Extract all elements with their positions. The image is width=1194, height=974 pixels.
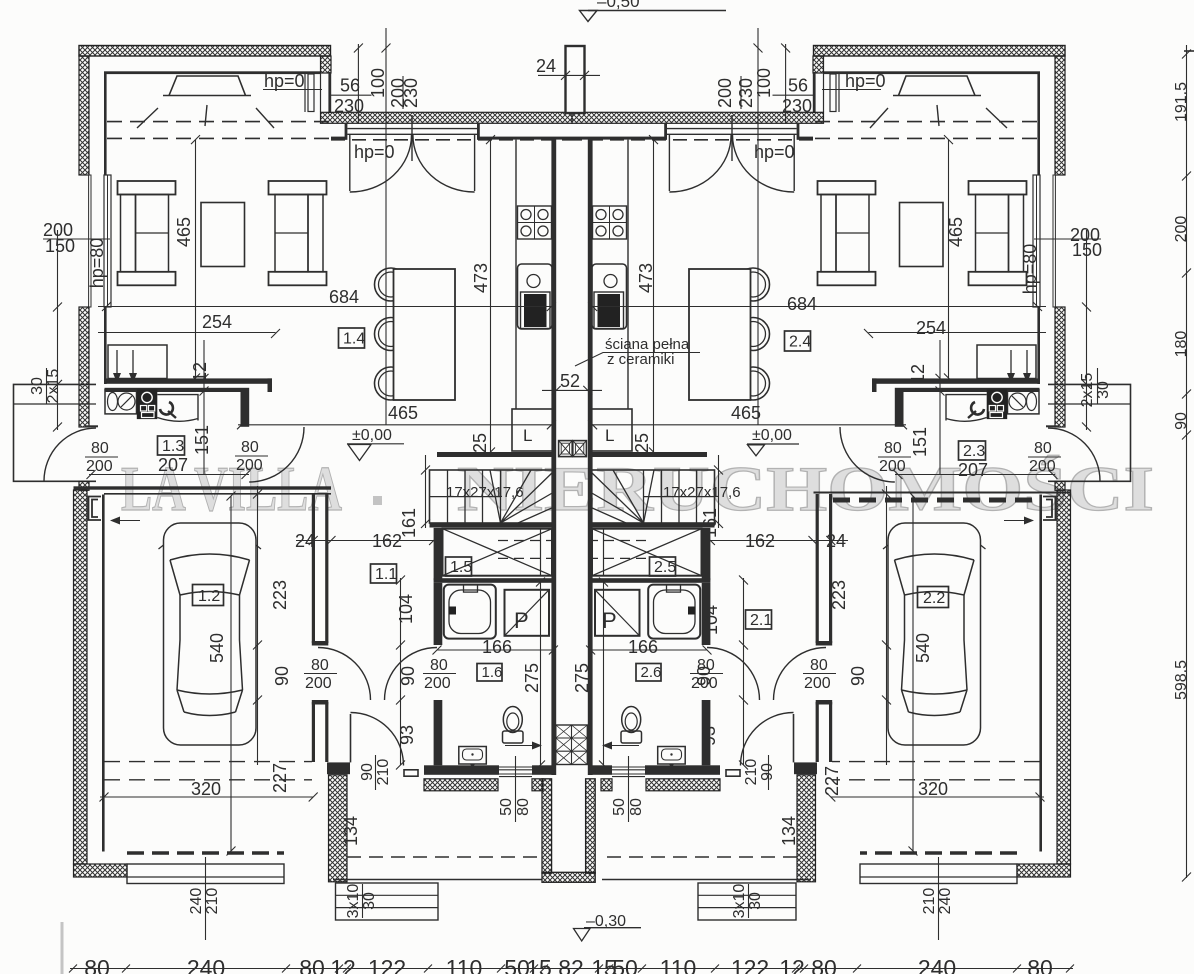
1.1 / 2.1 labels	[371, 564, 773, 629]
wall: left garage top wall	[74, 486, 332, 489]
hall back door swing arc	[351, 713, 404, 766]
dim chain 104/90/93 vertical	[400, 578, 402, 765]
level marker ±0,00 left	[347, 443, 404, 445]
svg-text:17x27x17,6: 17x27x17,6	[446, 484, 524, 501]
svg-text:15: 15	[526, 955, 552, 974]
svg-text:465: 465	[946, 217, 966, 247]
svg-text:80: 80	[810, 657, 828, 674]
svg-text:240: 240	[187, 955, 225, 974]
bathtub	[444, 585, 496, 639]
svg-text:210: 210	[921, 888, 938, 915]
svg-text:200: 200	[424, 675, 451, 692]
dim line at entrance	[357, 44, 359, 124]
svg-text:80: 80	[430, 657, 448, 674]
svg-text:210: 210	[204, 888, 221, 915]
dim 52 center	[542, 389, 572, 391]
wall: right garage top wall (solid+dashed)	[814, 492, 1071, 494]
wash basin	[459, 747, 487, 765]
wall: bathroom bottom wall right part	[532, 765, 556, 775]
svg-text:540: 540	[913, 633, 933, 663]
side door leaf cap	[85, 425, 98, 427]
back porch floor edge	[333, 879, 542, 881]
svg-text:200: 200	[879, 458, 906, 475]
wall: bathroom bottom wall left part	[424, 765, 499, 775]
roof overhang dashed lines in living room	[107, 121, 330, 123]
bathroom door swing arc	[385, 648, 438, 701]
svg-text:1.4: 1.4	[343, 331, 365, 348]
svg-text:56: 56	[788, 76, 808, 96]
svg-text:223: 223	[270, 580, 290, 610]
svg-text:hp=80: hp=80	[1020, 244, 1040, 295]
svg-text:3x10: 3x10	[345, 884, 362, 919]
svg-text:12: 12	[190, 362, 210, 382]
side porch outline with 2 steps	[14, 384, 97, 481]
svg-text:hp=0: hp=0	[845, 71, 886, 91]
dining chairs	[375, 268, 408, 301]
svg-text:2.4: 2.4	[789, 334, 811, 351]
svg-text:104: 104	[701, 605, 721, 635]
kitchen peninsula wall 12	[105, 378, 273, 383]
svg-text:151: 151	[192, 425, 212, 455]
svg-text:240: 240	[188, 888, 205, 915]
divider 200/230 rotated	[402, 76, 404, 109]
entrance door right swing arc	[413, 135, 475, 192]
svg-text:90: 90	[398, 666, 418, 686]
svg-text:hp=0: hp=0	[264, 71, 305, 91]
svg-text:1.2: 1.2	[198, 588, 220, 605]
svg-text:684: 684	[787, 294, 817, 314]
wall: front wall hatch band of entry section	[321, 112, 573, 123]
wall: front wall body edges at entry	[331, 137, 347, 140]
1.5 / 2.5 labels	[446, 557, 677, 576]
svg-text:80: 80	[241, 439, 259, 456]
svg-text:162: 162	[745, 531, 775, 551]
svg-text:17x27x17,6: 17x27x17,6	[663, 484, 741, 501]
svg-text:161: 161	[700, 508, 720, 538]
svg-text:191.5: 191.5	[1173, 82, 1190, 122]
chimney 24	[566, 46, 585, 113]
sofa 2 (facing)	[269, 181, 327, 195]
svg-text:104: 104	[396, 594, 416, 624]
svg-text:210: 210	[743, 759, 760, 786]
svg-text:200: 200	[1173, 216, 1190, 243]
2x15/30 porch rotated	[29, 369, 1112, 408]
svg-text:122: 122	[368, 955, 406, 974]
bottom dimension chain	[69, 965, 1074, 973]
svg-text:150: 150	[1072, 240, 1102, 260]
dim 275 bathroom vertical	[540, 582, 542, 765]
skylight trapezoid	[163, 76, 251, 96]
svg-text:1.1: 1.1	[375, 566, 397, 583]
svg-text:166: 166	[482, 637, 512, 657]
svg-text:30: 30	[747, 892, 764, 910]
washing machine P	[505, 590, 550, 636]
3x10/30 rotated	[345, 884, 764, 919]
dim 465 lower / level line	[238, 424, 551, 426]
dim 161 stairs vertical	[425, 455, 427, 528]
back step box right 3x10/30	[698, 883, 796, 920]
svg-text:24: 24	[536, 56, 556, 76]
wall: party wall (ściana pełna)	[551, 139, 556, 775]
window left wall 200/150 glazing	[89, 175, 91, 307]
svg-text:hp=0: hp=0	[354, 142, 395, 162]
svg-text:L: L	[605, 426, 614, 445]
wall: left inner face upper	[104, 74, 107, 175]
entrance door left swing arc	[350, 135, 412, 192]
wall: left wall of storage/bath block	[434, 528, 443, 580]
svg-text:12: 12	[908, 364, 928, 384]
stairs outer box	[430, 470, 555, 523]
wall: thick wall above stairs	[437, 452, 556, 457]
wall: top wall inner face line	[104, 71, 321, 74]
window 200/150 fraction	[43, 238, 110, 240]
svg-text:80: 80	[299, 955, 325, 974]
svg-text:80: 80	[697, 657, 715, 674]
bottom chain labels	[84, 955, 1053, 974]
wall: column between hall and back porch hatch	[329, 775, 348, 882]
kitchen counter edge line	[515, 140, 517, 409]
kitchenette sink cabinet	[105, 390, 137, 414]
svg-text:90: 90	[272, 666, 292, 686]
svg-text:2.2: 2.2	[923, 590, 945, 607]
garage door dashed head	[127, 851, 284, 854]
svg-text:134: 134	[341, 816, 361, 846]
level marker -0,50 top	[588, 10, 726, 12]
skylight rays	[137, 105, 274, 128]
wall: floor edge under stairs	[430, 524, 557, 528]
svg-text:230: 230	[334, 96, 364, 116]
svg-text:56: 56	[340, 76, 360, 96]
svg-text:122: 122	[731, 955, 769, 974]
svg-text:166: 166	[628, 637, 658, 657]
garage left wall window bracket	[89, 497, 102, 521]
svg-text:93: 93	[699, 726, 719, 746]
wall: left hatch stub below side door	[79, 481, 89, 490]
fraction 56/230	[331, 94, 372, 96]
svg-text:93: 93	[397, 725, 417, 745]
svg-text:80: 80	[311, 657, 329, 674]
svg-text:80: 80	[84, 955, 110, 974]
svg-text:275: 275	[572, 663, 592, 693]
hp=0 underline	[263, 89, 322, 91]
svg-text:90: 90	[1173, 412, 1190, 430]
svg-text:465: 465	[731, 403, 761, 423]
sciana pelna leader line	[575, 353, 700, 367]
svg-text:150: 150	[45, 236, 75, 256]
stair treads	[430, 470, 501, 523]
svg-text:±0,00: ±0,00	[352, 427, 392, 444]
svg-text:–0,50: –0,50	[597, 0, 640, 11]
svg-text:227: 227	[822, 766, 842, 796]
dim 320 garage	[100, 796, 313, 798]
svg-text:P: P	[514, 608, 529, 633]
wall: bathroom left wall upper	[434, 583, 443, 645]
svg-text:684: 684	[329, 287, 359, 307]
dim 207 entry	[89, 474, 249, 476]
svg-text:52: 52	[560, 371, 580, 391]
svg-text:180: 180	[1173, 331, 1190, 358]
svg-text:90: 90	[848, 666, 868, 686]
dim 540 garage vertical	[230, 496, 232, 851]
svg-text:240: 240	[918, 955, 956, 974]
wall: garage left inner face	[102, 495, 105, 852]
svg-text:110: 110	[446, 955, 483, 974]
dim 254 horizontal	[98, 332, 276, 334]
svg-text:207: 207	[958, 460, 988, 480]
divider 2x15/30 porch	[46, 368, 48, 404]
dim 166 bathroom	[437, 649, 553, 651]
svg-text:2.1: 2.1	[750, 612, 772, 629]
sofa 1 (left wall)	[118, 181, 176, 195]
svg-text:230: 230	[782, 96, 812, 116]
watermark LA VILLA - NIERUCHOMOSCI	[121, 453, 1154, 524]
gas meter grid 2x3	[556, 725, 588, 765]
hall back door threshold	[404, 770, 418, 776]
side door swing arc	[44, 428, 96, 481]
right unit: mirrored copy	[572, 28, 1131, 940]
svg-text:210: 210	[375, 759, 392, 786]
svg-text:hp=0: hp=0	[754, 142, 795, 162]
entry closet with arrows	[108, 345, 167, 379]
wall: garage left exterior hatch	[74, 490, 88, 864]
door jamb left of entrance	[345, 123, 348, 140]
dim 24/162 horizontal	[296, 540, 434, 542]
svg-text:227: 227	[270, 763, 290, 793]
svg-text:82: 82	[558, 955, 584, 974]
storage 1.5 crossed box	[443, 529, 553, 576]
svg-text:230: 230	[736, 78, 756, 108]
svg-text:80: 80	[1027, 955, 1053, 974]
svg-text:240: 240	[937, 888, 954, 915]
240/210 garage door rotated	[188, 888, 954, 915]
kitchen stove 4 burners	[518, 206, 552, 239]
wall: garage right wall upper	[313, 494, 326, 643]
stair winder diagonals	[490, 470, 554, 523]
50/80 rotated pairs	[498, 798, 645, 816]
back step box left 3x10/30	[336, 883, 439, 920]
svg-text:254: 254	[202, 312, 232, 332]
entrance double door panels	[347, 129, 477, 135]
svg-text:200: 200	[305, 675, 332, 692]
hall back door leaf	[350, 714, 352, 762]
80/200 porch doors	[86, 439, 1056, 475]
central utility shaft walls	[542, 779, 552, 874]
shaft arrow	[505, 745, 540, 747]
right edge dimension chain	[1182, 45, 1191, 882]
wall: garage bottom-left hatch	[74, 864, 128, 877]
svg-text:30: 30	[1095, 381, 1112, 399]
svg-text:24: 24	[295, 531, 315, 551]
back porch dashed line	[347, 856, 542, 858]
1.4 / 2.4 room labels	[339, 328, 812, 351]
entrance door right leaf	[474, 134, 476, 191]
svg-text:80: 80	[515, 798, 532, 816]
svg-text:80: 80	[884, 440, 902, 457]
left outer chain	[57, 230, 59, 430]
wall: between storage and bathroom	[434, 578, 556, 583]
svg-text:465: 465	[388, 403, 418, 423]
garage window arrow	[112, 520, 140, 522]
svg-text:2x15: 2x15	[1079, 373, 1096, 408]
dimension lines	[43, 28, 572, 940]
bathroom window 50/80 glazing	[499, 767, 532, 777]
1.2 / 2.2 labels	[193, 585, 949, 608]
svg-text:50: 50	[612, 955, 638, 974]
scan artifact left edge	[61, 922, 64, 974]
wall: bathroom left wall lower	[434, 700, 443, 765]
wall: garage right wall lower	[313, 702, 326, 762]
svg-text:100: 100	[754, 68, 774, 98]
kitchen 12 dim line	[203, 340, 205, 475]
divider 240/210	[205, 857, 207, 940]
level marker ±0,00 right	[747, 443, 799, 445]
wall: hall bottom wall stub	[327, 762, 350, 774]
svg-text:3x10: 3x10	[731, 884, 748, 919]
svg-text:200: 200	[691, 675, 718, 692]
svg-text:473: 473	[471, 263, 491, 293]
garage car	[159, 523, 262, 745]
wall: left inner face mid	[104, 307, 107, 384]
svg-text:110: 110	[660, 955, 697, 974]
divider 90/210	[375, 755, 377, 790]
svg-text:z ceramiki: z ceramiki	[607, 351, 675, 368]
svg-text:200: 200	[804, 675, 831, 692]
kitchenette stove dark	[137, 390, 158, 420]
dining table	[394, 269, 456, 400]
svg-text:80: 80	[628, 798, 645, 816]
svg-text:2.3: 2.3	[963, 443, 985, 460]
svg-text:598.5: 598.5	[1173, 660, 1190, 700]
level marker -0,30 bottom	[584, 927, 641, 929]
svg-text:24: 24	[826, 531, 846, 551]
wall: left exterior hatch band mid	[79, 307, 89, 427]
svg-text:320: 320	[918, 779, 948, 799]
wall: east step wall of living section with window 56	[305, 72, 321, 112]
dim 473 vertical	[490, 140, 492, 452]
svg-text:L: L	[523, 426, 532, 445]
svg-text:254: 254	[916, 318, 946, 338]
svg-text:151: 151	[910, 427, 930, 457]
svg-text:30: 30	[29, 377, 46, 395]
skylight centre dim line	[385, 28, 387, 425]
svg-text:200: 200	[236, 457, 263, 474]
svg-text:12: 12	[779, 955, 805, 974]
dim 24 chimney	[538, 71, 600, 80]
wall: top exterior wall hatch band (living room)	[79, 46, 331, 57]
1.6 / 2.6 labels	[477, 664, 661, 682]
kitchenette counter with faucet	[157, 395, 198, 422]
svg-text:50: 50	[498, 798, 515, 816]
coffee table	[201, 203, 245, 267]
90/210 rotated pairs	[359, 759, 776, 786]
svg-text:2x15: 2x15	[45, 369, 62, 404]
svg-text:1.5: 1.5	[450, 559, 472, 576]
1.3 / 2.3 labels	[158, 436, 986, 460]
svg-text:207: 207	[158, 455, 188, 475]
dim 465 living vertical	[195, 140, 197, 378]
wall: corner hatch column	[321, 56, 332, 73]
dim 684 horizontal	[98, 306, 551, 308]
top right corner tick	[1184, 50, 1194, 52]
svg-text:P: P	[602, 608, 617, 633]
svg-text:–0,30: –0,30	[586, 913, 626, 930]
entrance door mullion	[411, 115, 413, 161]
divider 50/80	[515, 756, 517, 822]
svg-text:80: 80	[1034, 440, 1052, 457]
80/200 garage and bath doors	[305, 657, 831, 692]
toilet	[503, 731, 524, 743]
kitchen sink unit	[518, 264, 553, 329]
electric meter boxes at entry	[559, 441, 587, 457]
svg-text:223: 223	[829, 580, 849, 610]
garage interior dashed lines	[104, 762, 312, 780]
svg-text:30: 30	[361, 892, 378, 910]
svg-text:2.5: 2.5	[654, 559, 676, 576]
hall door swing arc at kitchen	[249, 427, 304, 482]
svg-text:2.6: 2.6	[641, 664, 662, 681]
svg-text:200: 200	[86, 458, 113, 475]
svg-text:200: 200	[1029, 458, 1056, 475]
back porch hatch strip under bathroom wall	[424, 779, 498, 791]
dashed line across entry (hp boundary)	[331, 139, 572, 141]
svg-text:320: 320	[191, 779, 221, 799]
svg-text:465: 465	[174, 217, 194, 247]
svg-text:90: 90	[759, 763, 776, 781]
svg-text:540: 540	[207, 633, 227, 663]
svg-text:162: 162	[372, 531, 402, 551]
svg-text:100: 100	[368, 68, 388, 98]
wall: left exterior hatch band upper	[79, 56, 89, 175]
svg-text:230: 230	[401, 78, 421, 108]
svg-text:90: 90	[359, 763, 376, 781]
entrance door left leaf	[349, 134, 351, 191]
svg-text:12: 12	[330, 955, 356, 974]
svg-text:50: 50	[611, 798, 628, 816]
svg-text:473: 473	[636, 263, 656, 293]
svg-text:134: 134	[779, 816, 799, 846]
svg-text:hp=80: hp=80	[87, 238, 107, 289]
svg-text:275: 275	[522, 663, 542, 693]
garage apron step	[127, 864, 284, 884]
svg-text:1.6: 1.6	[482, 664, 503, 681]
door jamb right of entrance	[477, 123, 480, 140]
svg-text:80: 80	[811, 955, 837, 974]
dim chain 223/90 vertical	[257, 486, 259, 765]
svg-text:80: 80	[91, 440, 109, 457]
svg-text:1.3: 1.3	[162, 438, 184, 455]
svg-text:25: 25	[470, 433, 490, 453]
right edge chain rotated	[1173, 82, 1190, 700]
L closet at stair head	[512, 409, 553, 451]
garage-hall door swing arc	[318, 648, 371, 701]
svg-text:±0,00: ±0,00	[752, 427, 792, 444]
svg-text:25: 25	[632, 433, 652, 453]
svg-text:200: 200	[715, 78, 735, 108]
